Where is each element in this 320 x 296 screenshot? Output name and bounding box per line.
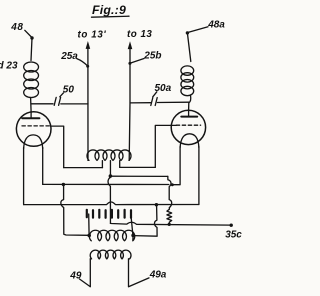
V1 filament leg left [23, 148, 25, 205]
svg-text:25b: 25b [143, 50, 161, 61]
dot 25a [86, 65, 89, 68]
resistor branch drop with hops [168, 176, 172, 207]
svg-text:48a: 48a [207, 20, 225, 31]
svg-text:d 23: d 23 [0, 61, 18, 72]
wire coil48 to tube V1 plate top [30, 98, 33, 112]
wire tank line left [87, 49, 89, 161]
filament line 1 [43, 183, 169, 185]
label 49 [69, 270, 82, 281]
wire grid V2 to tap [120, 166, 156, 168]
label 35c [225, 229, 242, 240]
V2 filament arc [180, 134, 199, 148]
node winding left [87, 234, 91, 238]
V1 grid lead [51, 126, 64, 168]
center tap wire [109, 161, 111, 176]
label 48a [207, 20, 225, 31]
inductor 48 [24, 62, 39, 72]
V1 plate [30, 112, 32, 118]
arrow to 13 [128, 41, 133, 49]
svg-text:35c: 35c [225, 229, 242, 240]
node resistor/35c [168, 223, 171, 226]
tap stub right [119, 161, 121, 168]
pointer 50a [153, 92, 157, 97]
pointer 49a [129, 278, 149, 287]
winding 49 leg right [128, 259, 130, 287]
wire core-left to winding [88, 214, 90, 235]
svg-text:48: 48 [10, 22, 23, 33]
wire plate to cap 50 [31, 103, 53, 105]
tap stub left [101, 161, 103, 168]
output winding 49 [90, 250, 131, 259]
triode V2 envelope [171, 110, 205, 144]
V1 filament leg right [42, 148, 44, 185]
svg-text:to 13ʹ: to 13ʹ [78, 30, 107, 41]
wire tank right to cap 50a [130, 102, 150, 104]
node fil1 drop [62, 183, 65, 186]
wire grid V1 to tap [64, 167, 103, 169]
wire core-right to winding [131, 218, 133, 235]
V2 filament leg left [173, 147, 180, 185]
V1 grid (dashed) [22, 125, 51, 127]
pointer 25b [130, 59, 144, 64]
winding 49 leg left [89, 259, 91, 287]
wire tank line right [128, 49, 131, 161]
svg-text:49a: 49a [149, 269, 167, 280]
pointer 25a [77, 59, 88, 66]
node fil2 drop [155, 203, 158, 206]
wire cap 50 to tank left [61, 103, 88, 105]
label 49a [149, 269, 167, 280]
wire dot48a to coil [187, 33, 190, 62]
svg-text:25a: 25a [60, 51, 78, 62]
pointer 49 [80, 279, 91, 287]
terminal dot 48 [30, 36, 33, 39]
triode V1 envelope [16, 112, 51, 147]
label to 13 [127, 29, 152, 40]
pointer 48 [25, 30, 32, 37]
capacitor 50a [151, 98, 153, 106]
label 25b [143, 50, 161, 61]
label 48 [10, 22, 23, 33]
fil2 drop to winding right with hop over 35c line [134, 206, 158, 236]
terminal dot 48a [186, 31, 189, 34]
pointer 48a [188, 27, 208, 33]
capacitor 50 [54, 97, 56, 105]
feedback winding [89, 230, 135, 241]
wire coil48a to tube V2 plate [189, 96, 191, 111]
title Fig.:9 [92, 3, 126, 17]
inductor 48a [181, 66, 194, 75]
filament line 2 with hop bump [24, 202, 199, 205]
V1 filament arc [24, 135, 43, 149]
terminal dot 35c [230, 224, 233, 227]
wire cap 50a to plate V2 [157, 101, 188, 103]
junction blob right filament [171, 183, 174, 186]
label d23 [0, 61, 18, 72]
35c line from center tap [110, 222, 231, 225]
tank coil 25 [87, 150, 131, 160]
dot 25b [128, 62, 131, 65]
V2 grid lead [155, 125, 176, 167]
label 50a [155, 83, 172, 94]
resistor R [167, 208, 172, 224]
fil1 drop with hop over fil2 [61, 186, 89, 235]
label to 13' [78, 30, 107, 41]
svg-text:Fig.:9: Fig.:9 [92, 3, 126, 17]
transformer core [87, 210, 131, 218]
pointer 50 [60, 93, 64, 97]
svg-text:to 13: to 13 [127, 29, 152, 40]
arrow to 13' [86, 41, 91, 49]
svg-text:50: 50 [63, 84, 75, 95]
wire center tap to resistor branch [110, 175, 167, 177]
V2 filament leg right [198, 147, 200, 205]
label 50 [63, 84, 75, 95]
wire dot48 to coil [31, 38, 32, 61]
V2 grid (dashed) [176, 124, 200, 126]
label 25a [60, 51, 78, 62]
title underline [92, 16, 130, 17]
V2 plate [188, 110, 190, 116]
center tap drop with hop over filament line [108, 177, 110, 223]
node center tap [109, 174, 113, 178]
node winding right [131, 234, 135, 238]
